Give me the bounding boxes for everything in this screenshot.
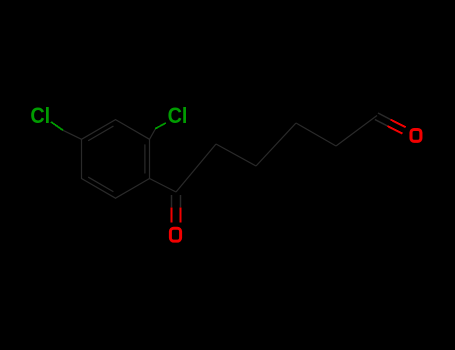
bond Cl1 to ring: green half bbox=[51, 122, 63, 130]
wire ring edge P4-P5 bbox=[81, 139, 83, 178]
chain bond C1-a bbox=[176, 144, 216, 192]
svg-text:Cl: Cl bbox=[30, 104, 50, 128]
carbonyl C1=O1 double bond: red halves bbox=[171, 207, 173, 222]
carbonyl C1=O1 double bond: dark halves bbox=[171, 195, 173, 207]
wire ring edge P3-P4 bbox=[82, 120, 116, 140]
chain bond a-b bbox=[216, 144, 256, 166]
wire aromatic inner bond P3-P4 bbox=[89, 126, 113, 140]
aldehyde C2=O2 double bond: dark halves bbox=[375, 120, 388, 127]
wire ring edge P1-P2 bbox=[149, 139, 151, 178]
wire ring edge P2-P3 bbox=[116, 120, 150, 140]
chain bond d-C2 bbox=[336, 116, 377, 147]
label Cl2 bbox=[168, 104, 188, 128]
label O1 (ketone oxygen) bbox=[170, 228, 180, 241]
aldehyde C2=O2 double bond: red halves bbox=[388, 126, 403, 134]
benzene ring outer bonds bbox=[82, 120, 150, 199]
bond Cl2 to ring: dark half bbox=[150, 129, 156, 140]
wire ring edge P6-P1 bbox=[116, 179, 150, 199]
wire ring edge P5-P6 bbox=[82, 179, 116, 199]
svg-text:Cl: Cl bbox=[168, 104, 188, 128]
bond Cl2 to ring: green half bbox=[155, 123, 166, 129]
wire aromatic inner bond P5-P6 bbox=[89, 177, 113, 191]
bond ring P1 to carbonyl C1 bbox=[150, 179, 177, 193]
wire aromatic inner bond P1-P2 bbox=[144, 145, 146, 173]
label Cl1 bbox=[30, 104, 50, 128]
chain bond b-c bbox=[256, 123, 296, 166]
bond Cl1 to ring: dark half bbox=[63, 130, 82, 139]
chain bond c-d bbox=[296, 123, 336, 146]
label O2 (aldehyde oxygen) bbox=[411, 130, 421, 142]
